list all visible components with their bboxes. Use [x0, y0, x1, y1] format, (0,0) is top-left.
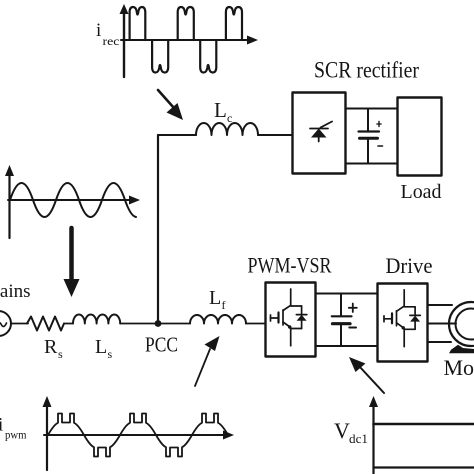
IGBT gate bar: [277, 313, 279, 323]
IGBT with diode inside PWM-VSR: [271, 289, 307, 346]
svg-text:L: L: [214, 98, 227, 122]
vertical wire PCC up to rectifier branch: [157, 135, 159, 321]
svg-text:Drive: Drive: [386, 253, 433, 278]
wire PWM-VSR to Drive (bottom): [316, 345, 377, 347]
svg-text:Load: Load: [401, 181, 442, 203]
wire Drive to motor (middle): [428, 323, 456, 325]
diode triangle: [297, 315, 307, 321]
capacitor C2 bottom lead: [340, 325, 342, 346]
label L_f: [209, 287, 226, 312]
capacitor C1 bottom lead: [367, 140, 369, 164]
thick down arrow from sine plot to mains line: [64, 228, 80, 297]
i_rec plot horizontal axis: [121, 36, 258, 45]
diode cathode bar: [296, 314, 306, 316]
capacitor C1 minus sign: [378, 145, 383, 147]
capacitor C2 minus sign: [349, 327, 356, 329]
svg-text:Mains: Mains: [0, 281, 31, 302]
wire L_c to SCR box: [258, 134, 292, 136]
wire Drive to motor (top): [428, 304, 452, 306]
IGBT gate lead: [271, 317, 278, 319]
thyristor anode stub: [318, 138, 320, 142]
dc-link capacitor of SCR rectifier: [359, 109, 383, 164]
arrow from i_rec plot to converter wire: [158, 90, 183, 120]
SCR rectifier box: [293, 93, 346, 174]
thyristor cathode bar: [310, 128, 328, 130]
i_rec plot vertical axis: [120, 4, 129, 77]
wire Drive to motor (bottom): [428, 341, 451, 343]
capacitor C2 plus sign: [352, 304, 354, 313]
svg-text:i: i: [0, 415, 3, 436]
motor outer circle: [449, 302, 474, 346]
i_pwm plot vertical axis: [43, 396, 52, 470]
svg-text:i: i: [96, 20, 101, 41]
dc-link capacitor between PWM-VSR and Drive: [332, 294, 357, 347]
label i_pwm: [0, 415, 27, 442]
sine squiggle inside source: [0, 322, 7, 327]
svg-text:PCC: PCC: [145, 333, 178, 357]
IGBT channel bar: [282, 310, 284, 325]
svg-text:L: L: [95, 336, 107, 358]
arrow pointing to dc link from V_dc1 plot: [349, 357, 384, 393]
svg-text:f: f: [222, 298, 226, 312]
motor base: [449, 345, 474, 353]
svg-text:rec: rec: [103, 36, 120, 48]
svg-text:PWM-VSR: PWM-VSR: [248, 253, 332, 278]
motor inner circle: [456, 309, 474, 340]
Load box: [398, 98, 442, 176]
wire resistor to inductor: [64, 323, 73, 325]
svg-text:V: V: [334, 418, 350, 443]
label i_rec: [96, 20, 120, 48]
V_dc1 level line: [374, 423, 474, 426]
wire PWM-VSR to Drive (top): [316, 293, 377, 295]
wire inductor to PCC: [120, 323, 190, 325]
AC source circle (Mains), clipped at left edge: [0, 311, 11, 336]
Drive box: [378, 284, 428, 362]
svg-text:pwm: pwm: [5, 430, 27, 442]
mains voltage sine plot horizontal axis: [8, 196, 140, 205]
i_pwm waveform: [48, 414, 228, 457]
inductor L_f: [190, 315, 246, 324]
V_dc1 time axis: [374, 466, 474, 468]
antiparallel diode branch: [291, 305, 302, 307]
resistor R_s: [27, 317, 64, 331]
IGBT emitter lead: [283, 322, 291, 328]
inductor L_c: [196, 123, 258, 135]
svg-text:dc1: dc1: [349, 431, 368, 446]
i_pwm plot horizontal axis: [44, 431, 234, 440]
IGBT collector lead: [290, 289, 292, 305]
PCC junction dot: [155, 320, 162, 327]
mains voltage sine plot vertical axis: [5, 165, 14, 238]
capacitor C2 top plate: [332, 315, 352, 317]
capacitor C1 bottom plate: [360, 137, 378, 140]
thyristor triangle: [311, 129, 327, 138]
svg-text:L: L: [209, 287, 221, 309]
capacitor C1 plus sign: [378, 122, 380, 127]
SCR thyristor symbol: [310, 122, 332, 142]
label L_s: [95, 336, 113, 361]
PWM-VSR box: [266, 283, 316, 357]
capacitor C1 top lead: [367, 109, 369, 131]
capacitor C2 bottom plate: [333, 322, 351, 325]
svg-text:s: s: [108, 347, 113, 361]
capacitor C2 top lead: [340, 294, 342, 316]
label V_dc1: [334, 418, 368, 446]
svg-text:c: c: [227, 111, 232, 125]
i_rec waveform: [130, 7, 242, 73]
wire to L_c: [158, 134, 196, 136]
svg-text:R: R: [44, 336, 58, 358]
arrow pointing to L_f from i_pwm plot: [195, 336, 220, 386]
wire L_f to PWM-VSR box: [246, 323, 265, 325]
capacitor C1 top plate: [359, 130, 380, 132]
IGBT with diode inside Drive: [384, 290, 420, 347]
inductor L_s: [73, 314, 120, 323]
V_dc1 plot vertical axis: [369, 396, 378, 474]
svg-text:s: s: [58, 347, 63, 361]
thyristor gate lead: [321, 122, 333, 128]
svg-text:SCR rectifier: SCR rectifier: [314, 58, 419, 83]
label R_s: [44, 336, 63, 361]
wire source to resistor: [11, 323, 28, 325]
wire SCR box to load (top): [346, 108, 397, 110]
mains sine waveform: [10, 183, 136, 217]
svg-text:Motor: Motor: [444, 355, 474, 380]
label L_c: [214, 98, 232, 125]
wire SCR box to load (bottom): [346, 163, 397, 165]
